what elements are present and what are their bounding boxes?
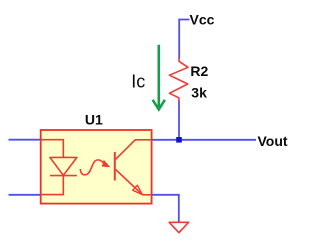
wire node to Vout xyxy=(152,139,256,141)
LED triangle xyxy=(50,157,77,175)
wire resistor to node xyxy=(178,101,180,140)
emitter exit wire xyxy=(142,194,151,196)
junction node xyxy=(176,137,182,143)
svg-text:R2: R2 xyxy=(190,63,208,79)
svg-text:Vcc: Vcc xyxy=(190,11,215,27)
svg-text:3k: 3k xyxy=(191,84,207,100)
transistor collector xyxy=(116,140,152,160)
wire cathode left xyxy=(9,194,41,196)
transistor emitter xyxy=(116,170,143,195)
resistor R2 xyxy=(169,58,188,102)
emitter arrowhead xyxy=(133,185,143,194)
transistor base bar xyxy=(114,152,116,181)
LED cathode wire xyxy=(41,176,64,195)
svg-text:U1: U1 xyxy=(85,111,103,127)
wire emitter to ground xyxy=(152,195,179,222)
wire anode left xyxy=(9,139,41,141)
current arrow Ic (green) xyxy=(153,45,165,110)
optocoupler U1 body xyxy=(41,130,152,204)
svg-text:Vout: Vout xyxy=(258,133,288,149)
LED cathode bar xyxy=(50,175,77,177)
ground symbol xyxy=(169,222,188,232)
svg-text:Ic: Ic xyxy=(131,71,145,91)
wire Vcc stub xyxy=(179,20,189,59)
photon squiggle arrow xyxy=(80,160,109,175)
LED anode wire xyxy=(41,140,64,158)
